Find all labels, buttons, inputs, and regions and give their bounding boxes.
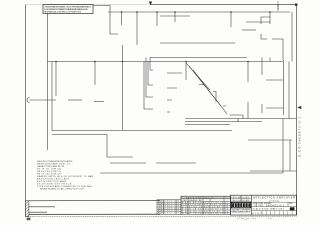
svg-text:5408471-0-1: 5408471-0-1	[266, 204, 285, 207]
wire y134.5	[52, 134, 107, 136]
wire bottom bus y173	[100, 172, 283, 174]
handwritten marks below frame	[237, 218, 272, 220]
wire y140 right	[248, 140, 292, 171]
svg-text:DEFLECTION AMPLIFIER: DEFLECTION AMPLIFIER	[253, 196, 295, 200]
title block text	[232, 196, 296, 215]
revision table text specks	[158, 197, 228, 215]
wire opamp2 out	[94, 101, 104, 103]
wire y22 right	[246, 21, 270, 23]
wire x270 mid vertical	[269, 58, 271, 62]
wire vertical x121.5	[121, 12, 123, 25]
wire y171 right	[250, 170, 297, 172]
wire vertical x175 top	[174, 12, 176, 16]
wire x262 output stage	[262, 58, 284, 114]
note box (general notes, top left)	[43, 5, 93, 14]
svg-text:CS: CS	[258, 205, 262, 207]
svg-text:THIS SCHEMATIC IS FURNISHED ON: THIS SCHEMATIC IS FURNISHED ONLY FOR TES…	[44, 5, 92, 8]
svg-text:D-CS-5408471-0-1: D-CS-5408471-0-1	[298, 117, 302, 157]
svg-text:SHEET 1 OF 1: SHEET 1 OF 1	[270, 209, 284, 211]
wire vertical x137	[136, 12, 138, 45]
wire x243 to 230	[238, 115, 243, 122]
wire opamp1 in feed	[55, 62, 57, 97]
wire gate outputs to or-cluster	[167, 73, 182, 112]
wire y45 component row feed	[160, 42, 235, 44]
wire top bus y12	[108, 11, 290, 13]
wire x283 down right side	[283, 60, 285, 115]
svg-text:digital: digital	[232, 204, 250, 208]
DEC digital logo	[231, 202, 251, 208]
svg-text:CHK J.JONES DATE: CHK J.JONES DATE	[232, 199, 251, 202]
wire x292 long right vertical	[291, 12, 293, 62]
svg-text:G 0061 CS 5408471 24 E6 741: G 0061 CS 5408471 24 E6 74123	[182, 213, 228, 215]
wire x107 down	[107, 135, 133, 158]
revision table left section	[157, 200, 181, 215]
notes list (left margin)	[37, 160, 93, 191]
svg-text:SCALE NONE: SCALE NONE	[253, 208, 270, 211]
wire y118.5 bus right	[185, 118, 297, 120]
wire node dots top bus	[121, 11, 271, 13]
wire x122.5 mid vertical	[122, 45, 124, 130]
revision table right section (parts/rev history)	[181, 196, 231, 214]
wire top sub-bus y16	[160, 16, 190, 22]
revision strip bar (bottom, long)	[26, 200, 297, 220]
wire opamp1 out to opamp2	[68, 99, 82, 101]
wire x95 vertical	[94, 62, 96, 86]
svg-text:DRN F.SMITH DATE: DRN F.SMITH DATE	[232, 196, 251, 199]
note box text	[44, 5, 92, 13]
wire diagonal feedback 2	[189, 66, 221, 106]
right margin vertical drawing number (side)	[298, 117, 302, 157]
wire y56 row bottom	[150, 57, 247, 59]
connector J1	[27, 98, 30, 103]
wire out transistor bases	[266, 80, 274, 108]
wire Q4 emitter to diode	[261, 34, 267, 39]
wire diagonal feedback 3	[193, 70, 227, 114]
side margin arrow	[298, 106, 301, 108]
wire x186 vertical top	[185, 62, 187, 81]
wire y121 seg	[185, 121, 262, 123]
wire y130 bus	[52, 130, 232, 132]
wire y30 coil to Q4	[242, 29, 256, 31]
svg-text:WHEN BOARD IS ALLOWED NOT OUT: WHEN BOARD IS ALLOWED NOT OUT	[40, 187, 85, 190]
wire x150 vertical into gates	[144, 58, 153, 110]
svg-text:F SEE ECO LOG: F SEE ECO LOG	[158, 213, 180, 215]
wire y157-163 segs	[110, 162, 196, 164]
wire vertical x110 into Q1	[110, 12, 118, 34]
svg-text:MAYNARD. MASSACHUSETTS: MAYNARD. MASSACHUSETTS	[232, 211, 252, 214]
wire vertical x270	[269, 12, 271, 24]
wire y124 seg	[185, 124, 230, 126]
wire q-pair right verticals	[247, 62, 249, 119]
wire x52 left vertical	[51, 62, 53, 131]
wire vertical x157	[156, 12, 158, 26]
title block	[231, 195, 297, 215]
wire bus node dots y61	[55, 61, 249, 63]
right margin vertical drawing number (top)	[276, 0, 280, 10]
wire vertical x231	[230, 12, 232, 27]
wire diagonal feedback 1	[186, 63, 210, 90]
wire left input vertical x47.5	[47, 14, 49, 151]
svg-text:5408471: 5408471	[276, 0, 280, 10]
wire left connector to opamp	[30, 99, 57, 101]
wire or cluster links	[199, 85, 243, 116]
wire x289 vertical	[288, 62, 290, 119]
border frame	[26, 2, 298, 217]
wire diode D3 out	[272, 39, 283, 60]
svg-text:BE TREATED ACCORDINGLY. COPYRI: BE TREATED ACCORDINGLY. COPYRIGHT 1978.	[44, 11, 82, 14]
wire bus y61.5	[48, 61, 284, 63]
wire top bus from note box	[93, 6, 110, 13]
svg-text:PURPOSES. THE CIRCUITS ARE PRO: PURPOSES. THE CIRCUITS ARE PROPRIETARY I…	[44, 8, 88, 11]
wire x283 lower vertical	[282, 119, 284, 174]
wire Q4 collector	[261, 17, 270, 24]
